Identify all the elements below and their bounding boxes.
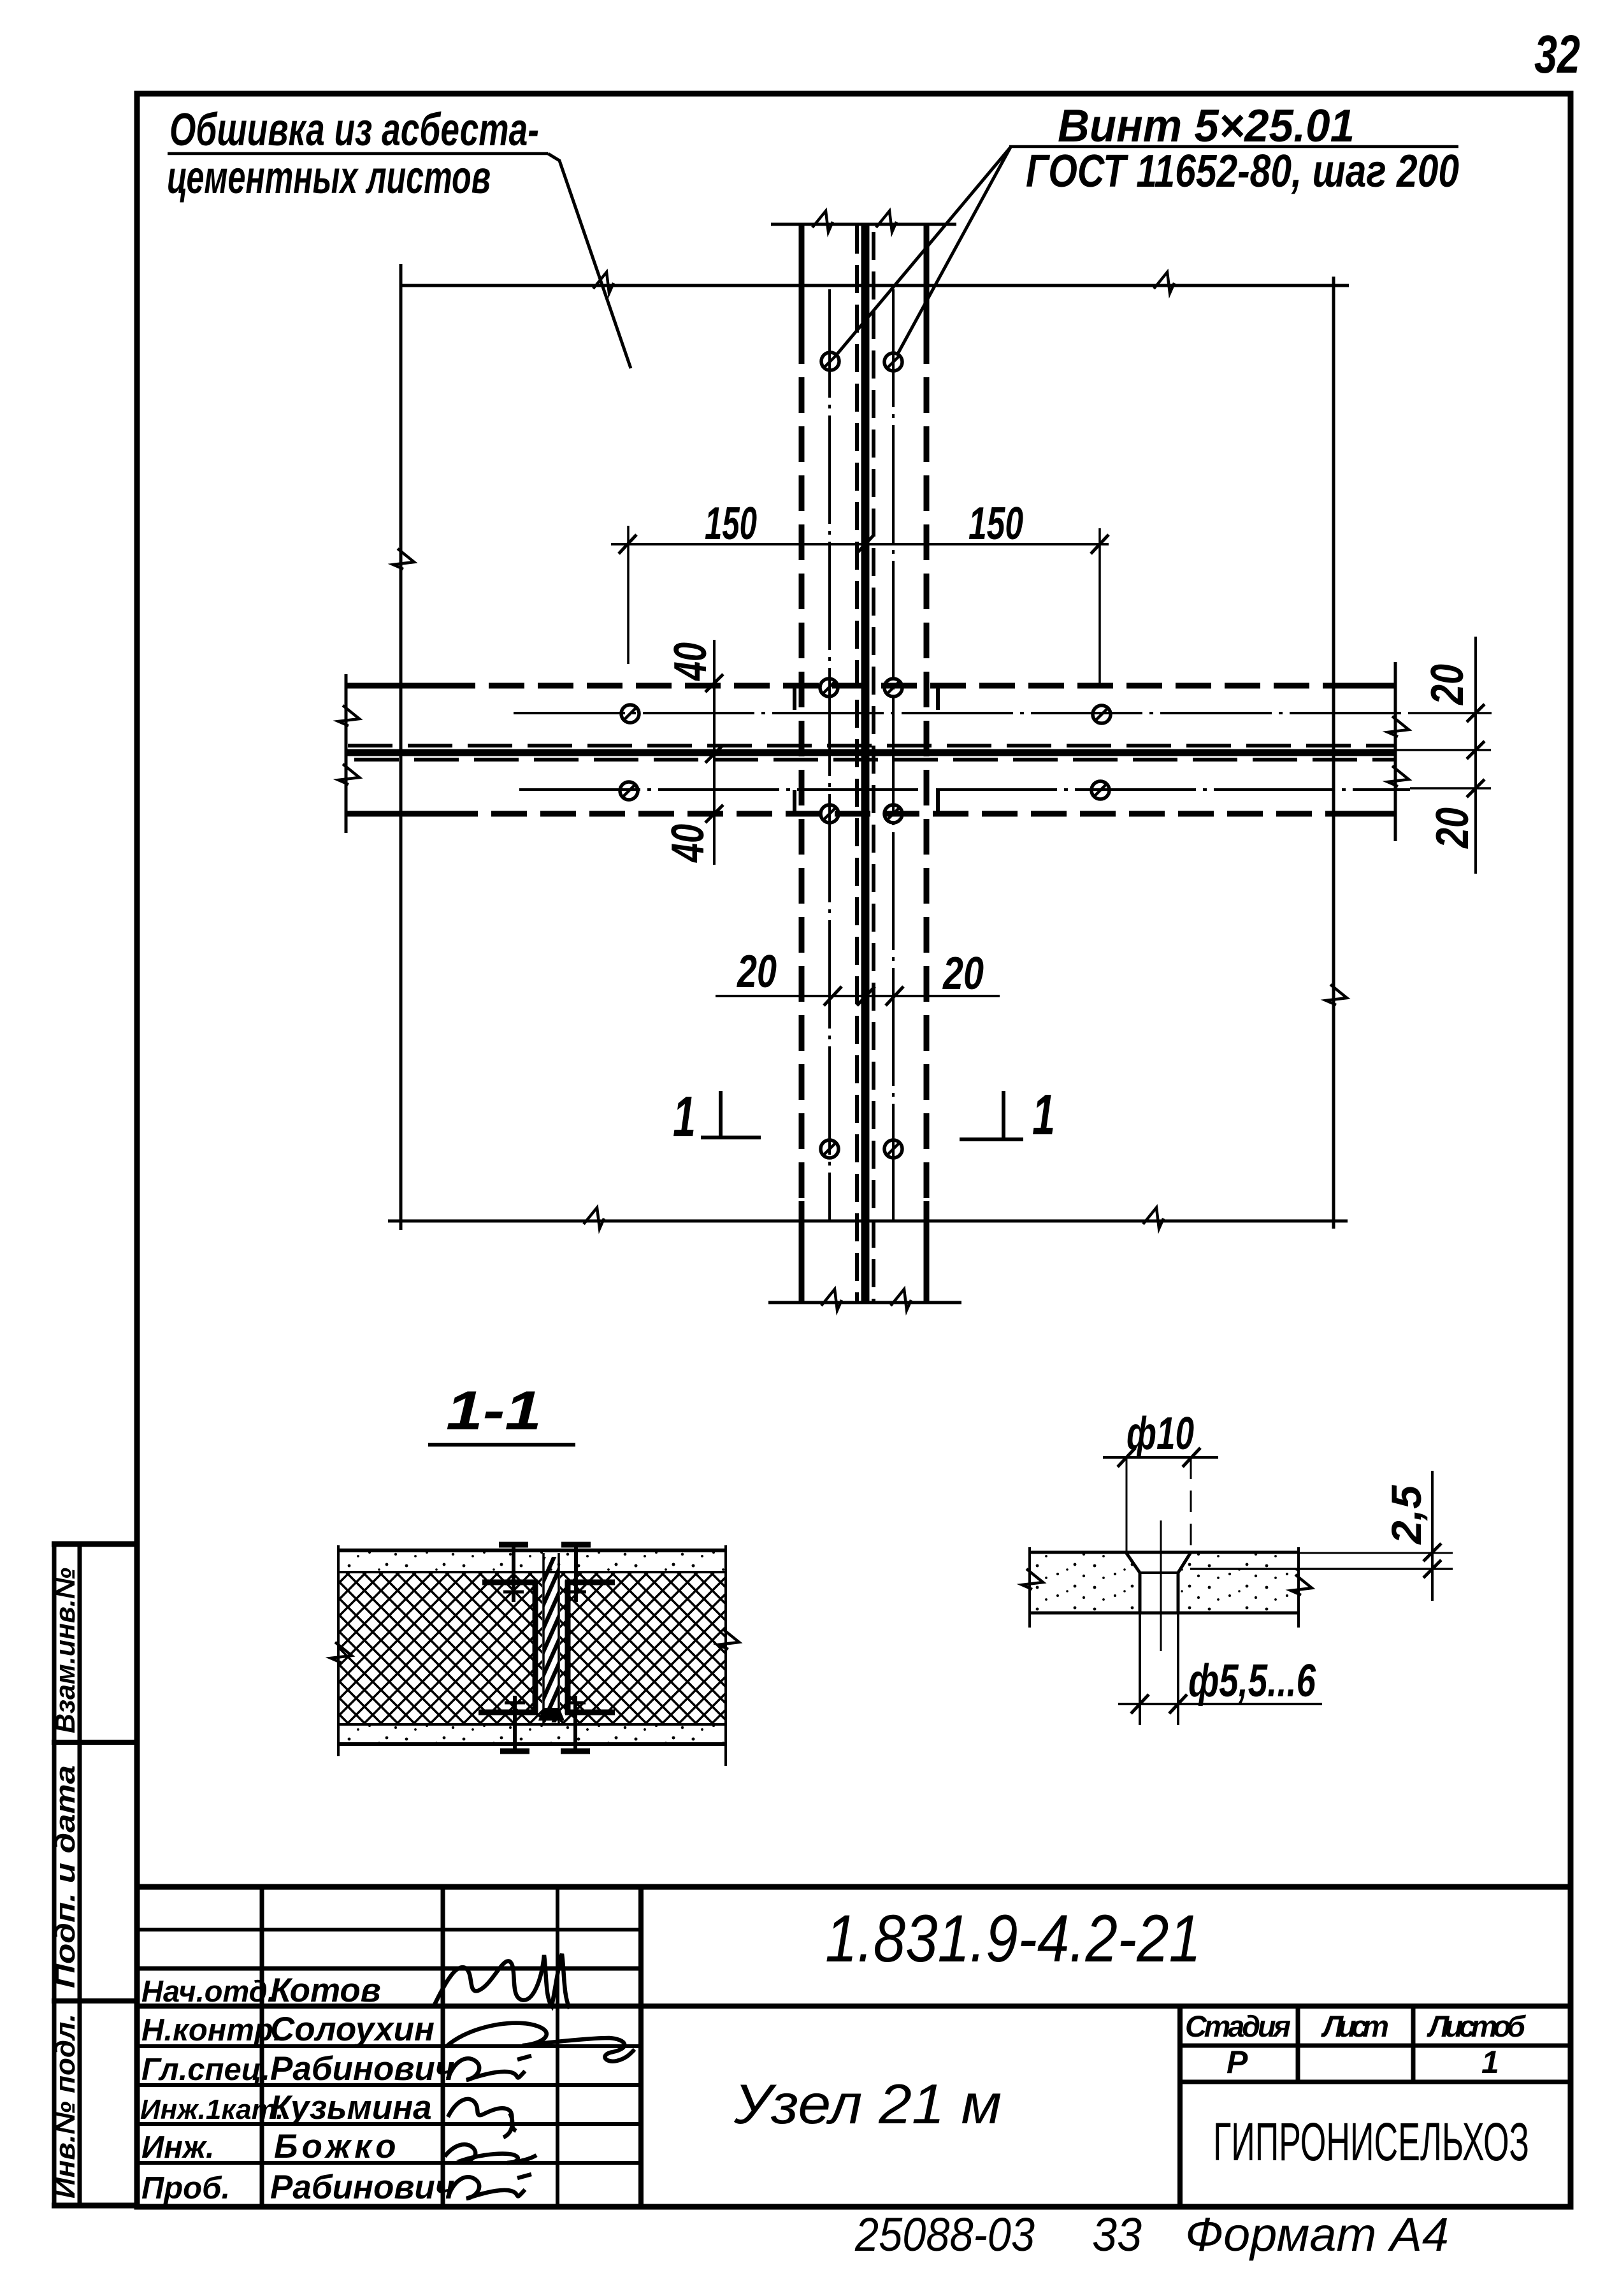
signature Solouhin bbox=[446, 2023, 635, 2061]
row line 7 bbox=[137, 2122, 641, 2126]
svg-text:20: 20 bbox=[736, 946, 777, 997]
break marks on left end tick bbox=[338, 705, 359, 726]
svg-text:Листоб: Листоб bbox=[1427, 2009, 1527, 2043]
extension 150 right bbox=[1098, 528, 1101, 685]
plate bottom surface bbox=[1030, 1612, 1299, 1615]
dim line 40/40 bbox=[713, 640, 716, 865]
screw v-bot-right bbox=[884, 1140, 902, 1158]
vertical panel right edge hidden bbox=[924, 328, 930, 1214]
horizontal screw axis bottom bbox=[519, 788, 1410, 791]
hidden plate corner stub top-left bbox=[793, 684, 796, 710]
break mark panel left bbox=[331, 1642, 352, 1663]
break mark plate right bbox=[1291, 1575, 1312, 1595]
svg-text:Формат А4: Формат А4 bbox=[1185, 2208, 1449, 2261]
panel bottom line bbox=[338, 1742, 725, 1746]
break marks on top cut bbox=[812, 211, 833, 232]
break mark on bottom edge right bbox=[1143, 1208, 1163, 1229]
horizontal panel bottom edge solid right bbox=[1334, 811, 1395, 817]
horizontal panel top edge solid right bbox=[1334, 683, 1395, 689]
ext 20r mid bbox=[1370, 749, 1491, 751]
tick 2.5 bottom bbox=[1423, 1560, 1441, 1578]
vertical panel left edge visible top bbox=[799, 224, 805, 328]
horizontal panel left end tick bbox=[345, 674, 348, 833]
svg-text:32: 32 bbox=[1534, 24, 1580, 84]
screw section bottom-right head bbox=[561, 1749, 590, 1754]
break mark on bottom edge bbox=[584, 1208, 604, 1229]
signature Kuz bbox=[448, 2099, 516, 2137]
title block top line bbox=[137, 1884, 1571, 1890]
screw section bottom-left stem bbox=[513, 1696, 517, 1752]
tick 20b left bbox=[824, 986, 842, 1006]
screw h-right-top bbox=[1093, 705, 1111, 723]
signature Kotov bbox=[433, 1954, 570, 2009]
ext f10 right dashed bbox=[1190, 1457, 1192, 1551]
hole wall extension right bbox=[1177, 1613, 1179, 1725]
section mark 1 right stem bbox=[1002, 1091, 1005, 1139]
row line 5 bbox=[137, 2044, 641, 2048]
svg-text:Нач.отд.: Нач.отд. bbox=[141, 1974, 276, 2008]
section title underline bbox=[428, 1443, 575, 1447]
break mark panel right bbox=[718, 1629, 739, 1649]
tick 150 mid bbox=[856, 535, 874, 554]
screw section bottom-left head bbox=[500, 1749, 529, 1754]
channel right top flange bbox=[565, 1580, 615, 1585]
svg-text:40: 40 bbox=[663, 824, 714, 863]
tick 20r bottom bbox=[1467, 779, 1485, 797]
gasket strip hatched bbox=[544, 1557, 558, 1722]
horizontal screw axis top bbox=[514, 712, 1408, 714]
facing sheet outline right edge bbox=[1332, 277, 1335, 1229]
vertical joint flank dash left bbox=[855, 226, 859, 1303]
dim line 2.5 bbox=[1431, 1471, 1434, 1601]
dim line f10 bbox=[1103, 1456, 1218, 1459]
hidden plate corner stub top-right bbox=[936, 684, 940, 710]
vertical joint flank dash right bbox=[872, 232, 875, 1303]
panel left end line bbox=[337, 1545, 340, 1756]
screw section bottom-right tick bbox=[565, 1701, 586, 1705]
row line 8 bbox=[137, 2161, 641, 2165]
hidden plate corner stub bottom-left bbox=[793, 790, 796, 815]
plate top surface bbox=[1030, 1551, 1299, 1554]
svg-text:2,5: 2,5 bbox=[1383, 1485, 1430, 1545]
insulation hatch left bbox=[340, 1573, 542, 1723]
svg-text:ГОСТ 11652-80, шаг 200: ГОСТ 11652-80, шаг 200 bbox=[1026, 146, 1459, 197]
signature Bozhko bbox=[445, 2144, 536, 2163]
row line 3 bbox=[137, 1967, 641, 1971]
svg-text:1-1: 1-1 bbox=[446, 1380, 542, 1441]
gasket boundary left bbox=[542, 1553, 545, 1724]
row line 4 / doc band bottom bbox=[137, 2004, 1571, 2009]
tick f5.5 left bbox=[1131, 1694, 1149, 1714]
break marks on right end tick bbox=[1388, 716, 1409, 737]
plate left end bbox=[1028, 1547, 1031, 1628]
vertical panel top cut line bbox=[771, 223, 956, 226]
channel left top flange bbox=[482, 1580, 538, 1585]
vertical panel left edge hidden bbox=[799, 328, 805, 1214]
leader to screw v-top-right bbox=[897, 147, 1011, 355]
screw section bottom-right stem bbox=[573, 1696, 577, 1752]
break mark plate left bbox=[1022, 1569, 1043, 1589]
stadia header bottom bbox=[1180, 2044, 1571, 2048]
signature Rab 2 bbox=[448, 2174, 531, 2199]
svg-text:Божко: Божко bbox=[274, 2128, 399, 2165]
svg-text:1: 1 bbox=[673, 1085, 696, 1149]
hidden plate corner stub bottom-right bbox=[936, 790, 940, 815]
svg-text:Гл.спец.: Гл.спец. bbox=[141, 2053, 270, 2087]
column line date bbox=[638, 1887, 644, 2206]
plate right end bbox=[1297, 1547, 1300, 1628]
svg-text:цементных листов: цементных листов bbox=[167, 152, 491, 203]
tick f5.5 right bbox=[1169, 1694, 1187, 1714]
hole wall extension left bbox=[1139, 1613, 1141, 1725]
screw section bottom-left tick bbox=[505, 1701, 525, 1705]
screw h-right-bottom bbox=[1091, 781, 1109, 799]
horizontal joint flank dash bottom bbox=[354, 758, 1395, 762]
break marks on bottom cut bbox=[821, 1289, 842, 1310]
screw section top-right head bbox=[561, 1542, 591, 1548]
tick 20r mid bbox=[1467, 741, 1485, 759]
svg-text:Солоухин: Солоухин bbox=[270, 2011, 435, 2048]
extension 150 left bbox=[627, 526, 630, 664]
screw section top-right stem bbox=[574, 1543, 578, 1602]
channel left bottom flange bbox=[479, 1710, 538, 1715]
screw v-top-left bbox=[821, 352, 839, 370]
vertical screw axis left bbox=[828, 289, 831, 1221]
tick 40 bottom bbox=[705, 805, 723, 823]
tick f10 right bbox=[1183, 1448, 1200, 1467]
stadia table left edge bbox=[1177, 2006, 1183, 2206]
countersink bottom ledge bbox=[1140, 1571, 1178, 1574]
inventory strip inner line bbox=[78, 1544, 82, 2206]
svg-text:Обшивка из асбеста-: Обшивка из асбеста- bbox=[169, 105, 539, 155]
countersink right slope bbox=[1178, 1552, 1191, 1613]
svg-text:Рабинович: Рабинович bbox=[270, 2169, 455, 2206]
plate top surface extension bbox=[1299, 1552, 1453, 1554]
column line roles bbox=[260, 1887, 264, 2206]
svg-text:20: 20 bbox=[1427, 807, 1478, 849]
screw v-bot-left bbox=[821, 1140, 838, 1158]
svg-text:Лист: Лист bbox=[1321, 2009, 1389, 2043]
ext 20r top bbox=[1408, 712, 1492, 714]
section mark 1 left bar bbox=[701, 1136, 761, 1139]
screw v-top-right bbox=[884, 353, 902, 371]
channel left web bbox=[533, 1580, 538, 1714]
panel bottom sheet inner line bbox=[338, 1723, 725, 1726]
facing sheet outline bottom edge bbox=[388, 1220, 1348, 1223]
tick 20r top bbox=[1467, 704, 1485, 722]
tick 2.5 top bbox=[1423, 1543, 1441, 1561]
svg-text:20: 20 bbox=[942, 948, 984, 999]
ext 20r bottom bbox=[1410, 787, 1491, 790]
stadia col 2 bbox=[1296, 2006, 1300, 2082]
horizontal panel top edge solid left bbox=[346, 683, 440, 689]
screw v-mid-right upper bbox=[884, 679, 902, 697]
tick 40 mid bbox=[705, 745, 723, 763]
screw section top-left head bbox=[499, 1542, 528, 1548]
tick 150 right bbox=[1091, 535, 1109, 554]
svg-text:Стадия: Стадия bbox=[1185, 2009, 1291, 2043]
svg-text:Н.контр.: Н.контр. bbox=[141, 2013, 282, 2047]
svg-text:Узел 21 м: Узел 21 м bbox=[733, 2072, 1002, 2135]
horizontal joint flank dash top bbox=[348, 744, 1395, 747]
weld blob at joint bottom bbox=[538, 1708, 565, 1721]
countersink left slope bbox=[1126, 1552, 1140, 1613]
section mark 1 left stem bbox=[719, 1091, 723, 1137]
svg-text:Рабинович: Рабинович bbox=[270, 2050, 455, 2088]
svg-text:Винт 5×25.01: Винт 5×25.01 bbox=[1058, 101, 1355, 152]
svg-text:ф5,5...6: ф5,5...6 bbox=[1188, 1656, 1316, 1707]
hole axis bbox=[1160, 1520, 1162, 1651]
tick 20b mid bbox=[857, 986, 875, 1006]
facing sheet outline top edge bbox=[401, 284, 1349, 287]
leader to screw v-top-left bbox=[835, 147, 1011, 356]
svg-text:Р: Р bbox=[1227, 2044, 1248, 2080]
break mark on left edge bbox=[393, 549, 414, 569]
svg-text:Проб.: Проб. bbox=[141, 2171, 230, 2206]
dim line 150+150 bbox=[611, 543, 1109, 545]
svg-text:1: 1 bbox=[1032, 1083, 1055, 1147]
panel top sheet inner line bbox=[338, 1571, 725, 1573]
stadia col 3 bbox=[1411, 2006, 1416, 2082]
panel top line bbox=[338, 1549, 725, 1552]
horizontal joint black bar bbox=[346, 749, 1395, 756]
svg-text:150: 150 bbox=[705, 498, 757, 549]
vertical panel left edge visible bottom bbox=[799, 1201, 805, 1303]
vertical panel bottom cut line bbox=[768, 1301, 961, 1304]
countersink depth line bbox=[1190, 1568, 1453, 1570]
section mark 1 right bar bbox=[960, 1137, 1023, 1141]
row line 2 bbox=[137, 1928, 641, 1931]
inventory strip bottom cap bbox=[52, 2203, 136, 2209]
svg-text:ф10: ф10 bbox=[1126, 1408, 1194, 1459]
tick 20b right bbox=[886, 986, 903, 1006]
vertical panel right edge visible bottom bbox=[924, 1201, 930, 1303]
white hole cutout bbox=[1141, 1554, 1177, 1612]
svg-text:25088-03: 25088-03 bbox=[854, 2208, 1035, 2261]
svg-text:20: 20 bbox=[1422, 664, 1473, 706]
svg-text:Кузьмина: Кузьмина bbox=[270, 2089, 432, 2126]
svg-text:Инв.№ подл.: Инв.№ подл. bbox=[50, 2014, 81, 2199]
panel right end line bbox=[724, 1545, 727, 1766]
tick 40 top bbox=[705, 674, 723, 692]
screw section top-left stem bbox=[512, 1543, 515, 1602]
svg-text:Подп. и дата: Подп. и дата bbox=[50, 1765, 81, 1988]
screw h-left-bottom bbox=[620, 782, 638, 800]
note screw underline bbox=[1009, 145, 1458, 148]
tick f10 left bbox=[1118, 1448, 1135, 1467]
svg-text:40: 40 bbox=[665, 642, 716, 681]
dim line 20/20 right bbox=[1474, 637, 1477, 874]
inventory strip top cap bbox=[52, 1541, 136, 1547]
screw section top-right tick bbox=[566, 1591, 586, 1594]
svg-text:Инж.: Инж. bbox=[141, 2130, 215, 2165]
screw section top-left tick bbox=[503, 1591, 524, 1594]
break mark on top edge bbox=[593, 272, 614, 293]
dim line 20/20 bottom bbox=[716, 995, 1000, 997]
facing sheet outline left edge bbox=[399, 264, 403, 1230]
screw v-mid-right lower bbox=[884, 805, 902, 823]
inventory strip divider 2 bbox=[52, 1998, 136, 2004]
vertical joint black bar bbox=[861, 224, 870, 1303]
horizontal panel right end tick bbox=[1394, 662, 1397, 841]
inventory strip divider 1 bbox=[52, 1740, 136, 1745]
horizontal panel top edge hidden bbox=[440, 683, 1334, 689]
tick 150 left bbox=[619, 535, 637, 554]
screw h-left-top bbox=[621, 705, 639, 723]
channel right web bbox=[565, 1580, 571, 1714]
row line 6 bbox=[137, 2083, 641, 2087]
dim line f5.5-6 bbox=[1118, 1703, 1322, 1705]
column line sign bbox=[556, 1887, 559, 2206]
break mark on right edge bbox=[1326, 985, 1347, 1005]
svg-text:33: 33 bbox=[1092, 2208, 1142, 2261]
screw v-mid-left lower bbox=[821, 805, 838, 823]
gasket boundary right bbox=[558, 1553, 560, 1724]
ext f10 left bbox=[1126, 1457, 1128, 1551]
note sheathing underline bbox=[168, 152, 548, 155]
column line names bbox=[441, 1887, 445, 2206]
svg-text:1.831.9-4.2-21: 1.831.9-4.2-21 bbox=[825, 1902, 1201, 1976]
break mark on top edge right bbox=[1154, 272, 1174, 293]
plate stipple bbox=[1031, 1554, 1297, 1612]
screw v-mid-left upper bbox=[820, 679, 838, 697]
horizontal panel bottom edge solid left bbox=[346, 811, 442, 817]
horizontal panel bottom edge hidden bbox=[442, 811, 1334, 817]
inventory strip left line bbox=[52, 1544, 57, 2206]
svg-text:150: 150 bbox=[968, 498, 1023, 549]
signature Rab 1 bbox=[448, 2056, 531, 2080]
insulation hatch right bbox=[560, 1573, 724, 1723]
svg-text:ГИПРОНИСЕЛЬХОЗ: ГИПРОНИСЕЛЬХОЗ bbox=[1213, 2112, 1529, 2172]
stadia row bottom bbox=[1180, 2080, 1571, 2084]
svg-text:Инж.1кат.: Инж.1кат. bbox=[140, 2094, 284, 2125]
bottom sheet stipple bbox=[340, 1726, 724, 1743]
vertical panel right edge visible top bbox=[924, 224, 930, 328]
svg-text:Котов: Котов bbox=[270, 1972, 381, 2009]
vertical screw axis right bbox=[892, 289, 895, 1221]
svg-text:Взам.инв.№: Взам.инв.№ bbox=[50, 1568, 81, 1733]
top sheet stipple bbox=[340, 1552, 724, 1571]
channel right bottom flange bbox=[565, 1710, 615, 1715]
svg-text:1: 1 bbox=[1481, 2044, 1499, 2080]
leader from sheathing note bbox=[548, 154, 631, 368]
